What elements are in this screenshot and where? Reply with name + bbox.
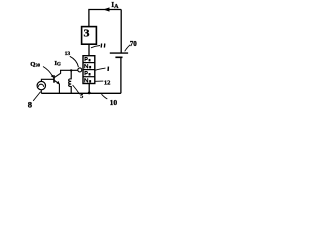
wire current source to bus — [40, 90, 42, 94]
label 10 — [102, 94, 118, 107]
wire gate horizontal — [60, 69, 78, 71]
label 1 — [95, 67, 108, 71]
svg-text:Q30: Q30 — [30, 61, 40, 68]
battery 70 negative plate — [115, 56, 122, 58]
wire base from current source — [41, 79, 53, 82]
svg-text:3: 3 — [84, 29, 91, 40]
resistor 5 (gate shunt coil) — [69, 70, 72, 93]
wire stack cathode to bus — [88, 84, 90, 94]
svg-text:8: 8 — [28, 100, 33, 110]
wire top anode horizontal — [89, 10, 121, 27]
layer label PE — [85, 57, 88, 61]
svg-text:5: 5 — [80, 94, 83, 100]
thyristor 1 four-layer stack outline — [83, 56, 95, 84]
wire box 3 to stack (node 11) — [88, 44, 90, 55]
layer dividers — [83, 62, 95, 64]
svg-text:13: 13 — [65, 51, 71, 57]
transistor Q30 — [54, 70, 61, 84]
arrowhead IA current direction — [103, 7, 109, 11]
svg-text:12: 12 — [104, 80, 111, 87]
label 8 — [28, 92, 41, 110]
svg-text:10: 10 — [110, 98, 118, 107]
wire emitter to bus — [58, 84, 60, 93]
label 12 — [95, 80, 110, 87]
layer label NE — [85, 78, 88, 82]
svg-text:70: 70 — [130, 40, 138, 48]
layer label NB — [85, 64, 88, 68]
wire bottom cathode bus (node 10) — [41, 92, 121, 94]
label Q30 — [30, 61, 53, 78]
label 70 — [125, 40, 138, 51]
wire battery to bus — [120, 57, 122, 93]
box 3 (load element) — [82, 27, 97, 45]
gate terminal circle (electrode 13) — [78, 68, 82, 72]
junction dot cathode/bus — [88, 92, 91, 95]
current source 8 (pulse source) — [37, 81, 45, 89]
wire anode right vertical — [120, 10, 122, 53]
label 11 — [91, 44, 105, 48]
label 5 — [73, 85, 84, 100]
junction dot gate/resistor — [70, 69, 72, 71]
layer label PB — [85, 71, 88, 75]
battery 70 positive plate — [110, 52, 128, 54]
label 13 — [65, 51, 79, 67]
